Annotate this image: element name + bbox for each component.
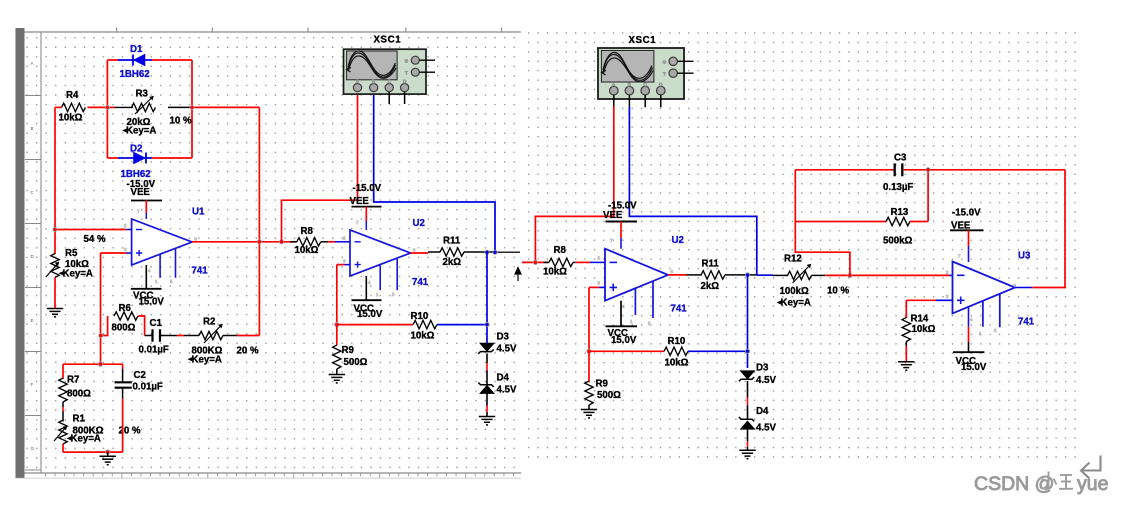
svg-text:20 %: 20 % <box>237 346 259 357</box>
capacitor C2 <box>115 364 163 452</box>
svg-text:U3: U3 <box>1018 250 1031 261</box>
svg-text:R9: R9 <box>342 345 355 356</box>
left ruler strip line <box>40 32 42 473</box>
wire: D3-D4 (right) <box>747 381 749 398</box>
diode D2 (points right) <box>107 144 192 181</box>
svg-text:R8: R8 <box>554 245 567 256</box>
ground (D4) <box>479 417 495 425</box>
svg-text:D4: D4 <box>756 406 769 417</box>
svg-text:R2: R2 <box>203 317 215 328</box>
svg-text:4.5V: 4.5V <box>756 375 776 386</box>
resistor R14 <box>902 313 936 361</box>
svg-text:C2: C2 <box>134 370 146 381</box>
svg-text:G: G <box>405 59 409 64</box>
svg-text:54 %: 54 % <box>84 234 106 245</box>
ruler zone letters <box>31 61 35 451</box>
svg-text:15.0V: 15.0V <box>961 362 987 373</box>
svg-text:741: 741 <box>192 266 209 277</box>
svg-text:10kΩ: 10kΩ <box>295 245 319 256</box>
VCC rail U3 <box>953 307 987 373</box>
svg-text:R6: R6 <box>119 303 132 314</box>
wire: D1 branch (blue) <box>107 59 192 61</box>
svg-text:500Ω: 500Ω <box>597 390 621 401</box>
svg-text:D1: D1 <box>130 44 143 55</box>
svg-text:E: E <box>31 318 34 323</box>
resistor R8 (right) <box>543 245 605 278</box>
svg-text:0.13µF: 0.13µF <box>883 182 913 193</box>
U1 offset-null stubs <box>160 249 175 278</box>
node junction dots upper <box>105 105 109 109</box>
resistor R10 <box>337 311 487 342</box>
capacitor C1 <box>139 318 178 356</box>
op-amp U3 <box>946 250 1035 336</box>
oscilloscope XSC1 (left) <box>344 35 436 105</box>
potentiometer R1 <box>54 414 141 453</box>
zener diode D3 <box>478 332 517 355</box>
potentiometer R2 <box>177 317 259 366</box>
resistor R9 (right) <box>585 351 621 409</box>
resistor R9 <box>333 325 368 374</box>
svg-text:500Ω: 500Ω <box>344 357 368 368</box>
watermark glyph 小 <box>1040 472 1057 490</box>
ground (R14) <box>898 362 914 370</box>
wire: U3 output feedback loop <box>1015 287 1032 289</box>
svg-text:100kΩ: 100kΩ <box>780 286 810 297</box>
svg-text:-15.0V: -15.0V <box>353 183 382 194</box>
svg-text:10kΩ: 10kΩ <box>543 267 567 278</box>
svg-text:800Ω: 800Ω <box>67 389 91 400</box>
op-amp U2 (right) <box>598 235 688 326</box>
svg-text:741: 741 <box>412 277 429 288</box>
resistor R10 (right) <box>589 336 748 369</box>
wire: U1 minus input <box>55 229 127 231</box>
resistor R7 <box>59 364 91 421</box>
svg-text:R7: R7 <box>67 375 79 386</box>
scope C and D stubs <box>389 92 404 104</box>
svg-text:R5: R5 <box>65 248 78 259</box>
potentiometer R5 <box>46 248 93 279</box>
svg-text:2kΩ: 2kΩ <box>701 281 720 292</box>
op-amp U2 <box>343 218 429 297</box>
wire: box right to feedback vertical <box>192 106 259 108</box>
svg-text:R1: R1 <box>73 414 86 425</box>
watermark glyph 王 <box>1059 475 1073 489</box>
svg-text:15.0V: 15.0V <box>357 309 383 320</box>
svg-text:10kΩ: 10kΩ <box>912 324 936 335</box>
wire: clip chain vertical (right) <box>747 275 749 368</box>
resistor R11 <box>440 235 495 267</box>
wire: D3 to D4 <box>486 354 488 364</box>
VCC rail U2r <box>606 301 638 346</box>
wire: plus-node vertical x=100.5 <box>100 253 102 364</box>
zener diode D4 <box>478 373 517 396</box>
svg-text:Key=A: Key=A <box>126 126 156 137</box>
wire: U2r output to R11 <box>668 274 687 276</box>
svg-text:B: B <box>372 79 375 84</box>
svg-text:R13: R13 <box>891 207 909 218</box>
svg-text:2kΩ: 2kΩ <box>443 257 462 268</box>
svg-text:R9: R9 <box>596 379 609 390</box>
wire: scope B tap (blue) <box>629 107 756 276</box>
wire: D1/R3/D2 red box right edge <box>191 60 193 158</box>
left dark scrollbar bar <box>16 28 25 478</box>
svg-text:R11: R11 <box>443 235 461 246</box>
dotted grid background (right sheet) <box>528 33 1078 457</box>
wire: output node to R12 (blue) <box>757 274 773 276</box>
svg-text:G: G <box>31 446 35 451</box>
resistor R11 (right) <box>701 258 757 292</box>
resistor R4 <box>55 90 107 124</box>
svg-text:15.0V: 15.0V <box>611 335 637 346</box>
svg-text:CSDN @: CSDN @ <box>974 473 1054 495</box>
wire: R12 to U3 minus <box>850 274 950 276</box>
capacitor C3 <box>795 152 1065 193</box>
svg-text:D3: D3 <box>497 332 510 343</box>
svg-text:10kΩ: 10kΩ <box>411 330 435 341</box>
potentiometer R12 <box>777 254 850 309</box>
wire: U2 output to R11 <box>411 252 429 254</box>
wire: lower RC box top rail <box>63 363 123 365</box>
svg-text:741: 741 <box>671 303 688 314</box>
svg-text:0.01µF: 0.01µF <box>133 381 163 392</box>
top ruler ticks <box>117 28 502 33</box>
svg-text:4.5V: 4.5V <box>497 385 517 396</box>
dotted grid background (left sheet) <box>26 38 520 468</box>
svg-text:R4: R4 <box>66 90 79 101</box>
svg-text:741: 741 <box>1018 317 1035 328</box>
wire: D4 to ground (right) <box>747 429 749 441</box>
wire: R5 bottom to ground <box>54 278 56 309</box>
ground (R9 right) <box>581 410 597 418</box>
svg-text:B: B <box>31 126 34 131</box>
svg-text:VEE: VEE <box>131 187 151 198</box>
svg-text:4.5V: 4.5V <box>756 423 776 434</box>
svg-text:T: T <box>405 71 408 76</box>
op-amp U1 <box>124 207 208 285</box>
svg-text:D2: D2 <box>130 144 142 155</box>
scope stubs <box>614 95 661 107</box>
svg-text:VEE: VEE <box>603 210 623 221</box>
wire: stage input <box>522 261 548 263</box>
svg-text:G: G <box>663 60 667 65</box>
input arrow mark at sheet edge <box>515 268 521 282</box>
svg-text:10kΩ: 10kΩ <box>59 113 83 124</box>
wire: U3 plus input / R14 <box>906 300 952 318</box>
wire: scope A tap (up from output wire, left segment) <box>282 200 358 242</box>
svg-text:Key=A: Key=A <box>781 298 811 309</box>
svg-text:800Ω: 800Ω <box>112 323 136 334</box>
potentiometer R3 <box>107 89 192 137</box>
VEE rail U2 <box>350 183 382 230</box>
U1 pin squiggles <box>124 209 198 284</box>
svg-text:D3: D3 <box>756 362 769 373</box>
wire: D4 to ground <box>486 393 488 405</box>
svg-text:Key=A: Key=A <box>192 354 222 365</box>
oscilloscope XSC1 (right) <box>598 35 694 107</box>
U2r offset-null stubs <box>635 281 653 318</box>
svg-text:XSC1: XSC1 <box>629 35 657 46</box>
svg-text:C1: C1 <box>150 318 163 329</box>
U2 offset-null stubs <box>380 259 397 290</box>
ruler zone dividers <box>25 96 41 471</box>
svg-text:B: B <box>628 82 631 87</box>
svg-text:4.5V: 4.5V <box>497 344 517 355</box>
svg-text:VEE: VEE <box>951 220 971 231</box>
wire: left column vertical (R4 left to R5 to ground) <box>54 107 56 254</box>
svg-text:U2: U2 <box>413 218 425 229</box>
wire: U1 plus input <box>101 252 127 254</box>
C3/R13 feedback left vertical <box>795 170 850 276</box>
ground (RC box) <box>100 452 116 465</box>
svg-text:0.01µF: 0.01µF <box>139 345 169 356</box>
svg-text:T: T <box>663 72 666 77</box>
svg-text:U1: U1 <box>192 207 205 218</box>
wire: clip node vertical (output to D3 chain) <box>486 252 488 343</box>
wire: U2r plus input <box>587 287 605 353</box>
wire: scope A vertical drop <box>357 94 359 201</box>
wire: U2 plus input <box>335 265 350 327</box>
wire: scope B vertical drop (blue) <box>374 94 495 253</box>
U3 offset-null stubs <box>983 293 1000 327</box>
svg-text:yue: yue <box>1077 473 1108 495</box>
svg-text:C3: C3 <box>894 152 907 163</box>
VCC rail U1 <box>131 265 165 307</box>
svg-text:10 %: 10 % <box>170 116 192 127</box>
svg-text:D4: D4 <box>497 373 510 384</box>
svg-text:R10: R10 <box>411 311 429 322</box>
svg-text:R10: R10 <box>668 336 686 347</box>
resistor R6 loop <box>99 303 145 338</box>
svg-text:F: F <box>31 382 34 387</box>
svg-text:10kΩ: 10kΩ <box>665 358 689 369</box>
svg-text:15.0V: 15.0V <box>139 296 165 307</box>
resistor R8 <box>290 226 350 256</box>
ground (R5) <box>47 309 63 317</box>
wire: feedback vertical x=259.4 (box/R2 to output node) <box>258 107 260 335</box>
top ruler line <box>25 31 522 33</box>
svg-text:R8: R8 <box>301 226 314 237</box>
wire: U1 output to R8 <box>192 241 296 243</box>
diode D1 (points left) <box>120 44 150 80</box>
svg-text:Key=A: Key=A <box>71 434 101 445</box>
svg-text:R14: R14 <box>911 313 929 324</box>
VEE rail U2r <box>603 201 637 249</box>
zener diode D3 (right) <box>739 362 777 386</box>
svg-text:R12: R12 <box>784 254 802 265</box>
svg-text:Key=A: Key=A <box>63 268 93 279</box>
ground (D4 right) <box>739 450 755 458</box>
svg-text:VEE: VEE <box>350 196 370 207</box>
zener diode D4 (right) <box>739 406 777 434</box>
svg-text:1BH62: 1BH62 <box>120 69 150 80</box>
wire: D1/R3/D2 red box left edge <box>106 60 108 158</box>
watermark return symbol <box>1081 456 1101 479</box>
resistor R13 <box>795 168 930 247</box>
VEE rail U3 <box>950 207 984 262</box>
svg-text:U2: U2 <box>672 235 684 246</box>
VEE rail U1 <box>127 179 163 219</box>
wire: output node stub to sheet edge <box>495 251 520 253</box>
bottom ruler border <box>25 472 522 474</box>
svg-text:R11: R11 <box>702 258 720 269</box>
VCC rail U2 <box>352 276 383 320</box>
ground (R9) <box>329 375 345 383</box>
svg-text:XSC1: XSC1 <box>374 35 402 46</box>
svg-text:10 %: 10 % <box>827 286 849 297</box>
svg-text:R3: R3 <box>136 89 149 100</box>
wire: lower RC box bottom rail <box>63 451 123 453</box>
svg-text:-15.0V: -15.0V <box>952 207 981 218</box>
wire: scope A to input node (red) <box>535 107 613 263</box>
svg-text:500kΩ: 500kΩ <box>883 235 913 246</box>
